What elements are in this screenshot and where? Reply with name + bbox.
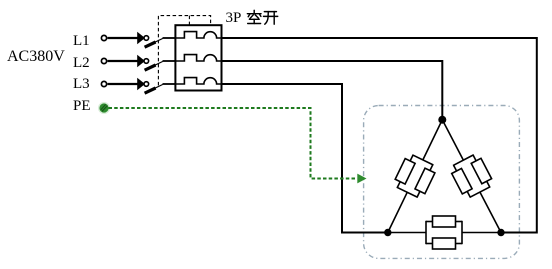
svg-text:AC380V: AC380V bbox=[7, 48, 65, 65]
svg-text:L3: L3 bbox=[73, 76, 90, 92]
svg-text:3P: 3P bbox=[226, 10, 242, 26]
svg-text:L2: L2 bbox=[73, 55, 90, 71]
svg-text:PE: PE bbox=[73, 98, 91, 114]
svg-text:L1: L1 bbox=[73, 33, 90, 49]
